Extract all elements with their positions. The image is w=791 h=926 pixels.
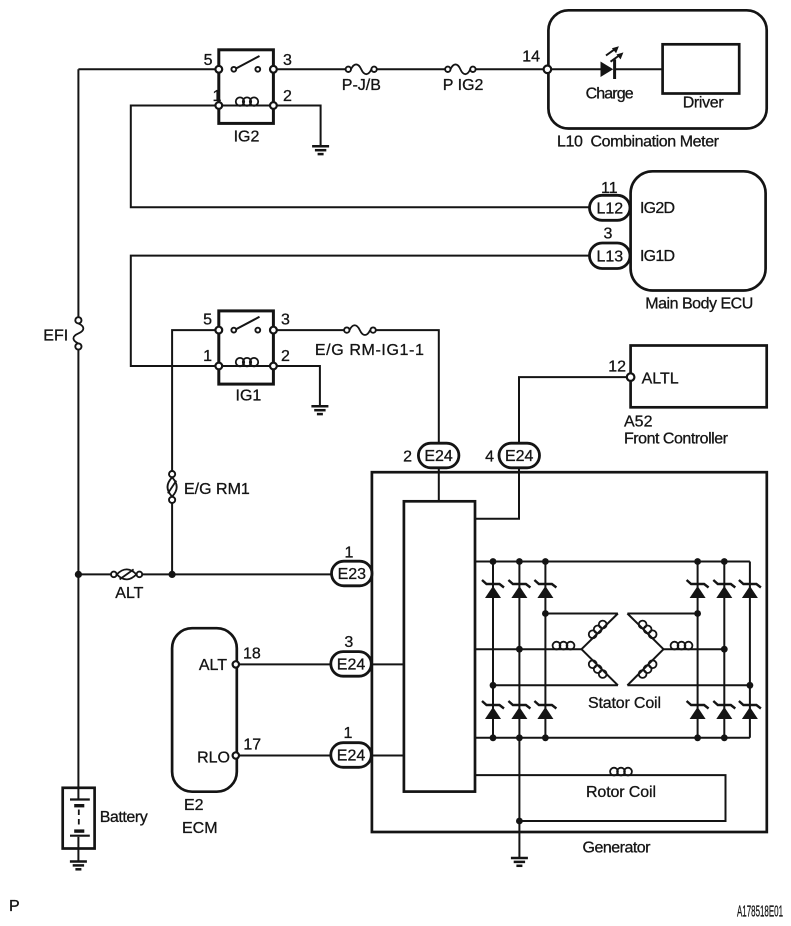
wire stator phase left bottom xyxy=(493,684,618,686)
box generator xyxy=(372,472,767,832)
wire IG1 pin 2 to ground xyxy=(273,366,320,406)
wire fuse E/G RM-IG1-1 to connector E24 pin 2 xyxy=(373,330,439,443)
svg-text:3: 3 xyxy=(281,312,290,329)
wire diode column 1 xyxy=(492,562,494,738)
wire stator right upper diagonal xyxy=(627,614,663,650)
svg-text:3: 3 xyxy=(344,634,353,651)
svg-text:5: 5 xyxy=(204,52,213,69)
svg-text:ECM: ECM xyxy=(182,820,218,837)
wire rotor coil loop xyxy=(475,775,726,821)
svg-text:P IG2: P IG2 xyxy=(443,77,484,94)
svg-text:Driver: Driver xyxy=(683,95,725,112)
wire stator phase left top xyxy=(545,613,618,615)
ECM ALT terminal circle xyxy=(233,661,239,667)
wire IG2 pin 1 to connector L12 xyxy=(131,106,590,208)
fusible link ALT xyxy=(111,569,142,579)
box driver xyxy=(663,44,740,93)
wire charge LED cathode to driver xyxy=(615,68,663,70)
junction dot top bus column 1 xyxy=(490,558,497,565)
junction dot phase tap column 3 xyxy=(542,610,549,617)
svg-text:Charge: Charge xyxy=(586,86,634,103)
relay IG1 pin 5 xyxy=(215,327,222,334)
junction dot top bus column 5 xyxy=(721,558,728,565)
junction dot phase tap column 2 xyxy=(516,646,523,653)
box battery xyxy=(63,788,95,849)
diode D7 lower column 1 xyxy=(482,701,504,719)
relay IG1 pin 1 xyxy=(215,363,222,370)
wire diode column 4 xyxy=(697,562,699,738)
wire rectifier top bus xyxy=(475,561,750,563)
wire fuse P-J/B to fuse P IG2 xyxy=(374,68,448,70)
battery top lead xyxy=(77,788,79,799)
wire IG2 pin 2 to ground xyxy=(273,106,320,147)
relay IG1 switch blade xyxy=(236,317,260,330)
svg-text:E/G RM-IG1-1: E/G RM-IG1-1 xyxy=(315,342,424,359)
svg-text:3: 3 xyxy=(604,226,613,243)
svg-text:1: 1 xyxy=(213,88,222,105)
wire diode column 3 xyxy=(544,562,546,738)
svg-text:Main Body ECU: Main Body ECU xyxy=(645,296,753,313)
battery cell long plate top xyxy=(70,798,90,800)
svg-text:P-J/B: P-J/B xyxy=(342,77,381,94)
battery cell long plate bottom xyxy=(70,835,90,837)
stator coil right lower diagonal loops xyxy=(639,660,657,678)
diode D11 lower column 5 xyxy=(713,701,735,719)
diode D9 lower column 3 xyxy=(534,701,556,719)
junction dot phase tap column 6 xyxy=(747,682,754,689)
wire stator phase left middle xyxy=(475,648,582,650)
svg-text:2: 2 xyxy=(281,348,290,365)
svg-text:ALT: ALT xyxy=(115,585,143,602)
relay IG2 box xyxy=(219,50,274,124)
relay IG2 switch blade xyxy=(236,56,260,69)
svg-text:IG1: IG1 xyxy=(236,387,262,404)
junction dot top bus column 4 xyxy=(694,558,701,565)
svg-text:L12: L12 xyxy=(596,200,623,217)
svg-text:E24: E24 xyxy=(337,748,366,765)
svg-text:E24: E24 xyxy=(505,448,534,465)
svg-text:E23: E23 xyxy=(338,566,367,583)
svg-text:EFI: EFI xyxy=(43,328,68,345)
wire pin 14 to charge LED anode xyxy=(548,68,601,70)
wire connector E24 pin 3 to regulator xyxy=(371,663,404,665)
svg-text:P: P xyxy=(9,898,20,915)
wire IG1 pin 5 to fuse E/G RM1 xyxy=(172,330,219,471)
ground of relay IG2 xyxy=(312,146,329,154)
wire fuse ALT to connector E23 xyxy=(139,573,332,575)
wire ECM RLO terminal to connector E24 pin 1 xyxy=(236,755,332,757)
svg-text:ALTL: ALTL xyxy=(642,371,679,388)
wire stator phase right top xyxy=(627,613,697,615)
wire connector L13 to IG1 pin 1 xyxy=(131,256,590,366)
svg-text:11: 11 xyxy=(601,180,618,197)
connector E24 pin2 oval xyxy=(418,443,459,468)
svg-text:Rotor Coil: Rotor Coil xyxy=(586,784,656,801)
box A52 front controller xyxy=(631,346,767,408)
battery cell short plate top xyxy=(74,804,84,807)
relay IG1 coil loops xyxy=(236,358,258,366)
svg-text:Stator Coil: Stator Coil xyxy=(588,695,661,712)
wire stator phase right middle xyxy=(664,648,725,650)
svg-text:18: 18 xyxy=(243,646,261,663)
diode D6 upper column 6 xyxy=(739,580,761,598)
diode D10 lower column 4 xyxy=(687,701,709,719)
battery bottom lead xyxy=(77,837,79,849)
junction dot phase tap column 1 xyxy=(490,682,497,689)
svg-text:Generator: Generator xyxy=(583,840,652,857)
junction dot bottom bus column 3 xyxy=(542,734,549,741)
wire battery line to fuse ALT xyxy=(78,573,113,575)
box main body ECU xyxy=(631,171,766,290)
wire battery feed vertical lower xyxy=(77,350,79,788)
relay IG2 pin 1 xyxy=(215,102,222,109)
svg-text:1: 1 xyxy=(345,545,354,562)
svg-text:17: 17 xyxy=(243,737,261,754)
wire rectifier bottom bus xyxy=(475,737,750,739)
battery cell short plate bottom xyxy=(74,829,84,832)
diode D3 upper column 3 xyxy=(534,580,556,598)
charge LED arrows xyxy=(606,46,623,62)
stator coil left lower diagonal loops xyxy=(589,660,607,678)
svg-text:Front Controller: Front Controller xyxy=(624,431,729,448)
fuse E/G RM-IG1-1 xyxy=(344,325,376,335)
wire diode column 2 xyxy=(518,562,520,738)
ground of generator xyxy=(511,858,528,866)
svg-text:E24: E24 xyxy=(337,657,366,674)
A52 pin 12 circle xyxy=(627,373,635,381)
wire fuse P IG2 to meter pin 14 xyxy=(473,68,548,70)
wire connector E24 pin 1 to regulator xyxy=(371,755,404,757)
svg-text:3: 3 xyxy=(283,52,292,69)
svg-text:A178518E01: A178518E01 xyxy=(737,904,783,921)
wire IG1 coil bar pin1-pin2 xyxy=(219,365,274,367)
wire IG1 pin 3 to fuse E/G RM-IG1-1 xyxy=(273,329,346,331)
meter pin 14 circle xyxy=(544,66,552,74)
junction dot EFI-ALT xyxy=(75,571,82,578)
svg-text:IG2: IG2 xyxy=(234,128,260,145)
fuse P IG2 xyxy=(445,64,476,74)
wire stator phase right bottom xyxy=(627,684,750,686)
svg-text:E24: E24 xyxy=(424,448,453,465)
svg-text:1: 1 xyxy=(203,348,212,365)
relay IG1 pin 2 xyxy=(270,363,277,370)
connector E24 pin3 oval xyxy=(331,652,372,677)
wire stator left upper diagonal xyxy=(582,614,618,650)
charge LED triangle and cathode bar xyxy=(601,60,615,80)
svg-text:ALT: ALT xyxy=(199,657,227,674)
wire diode column 6 xyxy=(749,562,751,738)
svg-text:2: 2 xyxy=(403,449,412,466)
stator coil left upper diagonal loops xyxy=(589,621,607,639)
fuse P-J/B xyxy=(346,64,377,74)
wire connector E24 pin 2 to regulator xyxy=(438,468,440,502)
stator coil right horizontal loops xyxy=(671,642,693,650)
relay IG2 pin 5 xyxy=(215,66,222,73)
battery dashed middle link xyxy=(78,810,80,829)
junction dot top bus column 2 xyxy=(516,558,523,565)
svg-text:1: 1 xyxy=(344,725,353,742)
svg-text:RLO: RLO xyxy=(197,750,230,767)
relay IG2 switch contact circles xyxy=(231,67,260,72)
wire connector E24 pin 4 to regulator xyxy=(475,468,519,519)
junction dot rotor coil ground xyxy=(516,818,523,825)
svg-text:IG2D: IG2D xyxy=(640,200,675,217)
junction dot top bus column 3 xyxy=(542,558,549,565)
wire stator right lower diagonal xyxy=(627,649,663,685)
connector E23 oval xyxy=(332,561,373,586)
stator coil left horizontal loops xyxy=(553,642,575,650)
wire battery to ground xyxy=(77,849,79,862)
svg-text:2: 2 xyxy=(283,88,292,105)
connector L13 oval xyxy=(590,243,631,269)
fusible link E/G RM1 xyxy=(168,471,177,503)
svg-text:5: 5 xyxy=(203,312,212,329)
ground of battery xyxy=(70,862,87,870)
connector L12 oval xyxy=(590,195,631,220)
relay IG1 switch contact circles xyxy=(231,328,260,333)
wire generator ground line xyxy=(518,738,520,858)
wire IG2 pin 3 to fuse P-J/B xyxy=(273,68,348,70)
svg-text:12: 12 xyxy=(608,359,626,376)
svg-text:14: 14 xyxy=(522,49,540,66)
box L10 combination meter xyxy=(548,10,766,128)
wire IG2 coil bar pin1-pin2 xyxy=(219,105,274,107)
diode D1 upper column 1 xyxy=(482,580,504,598)
relay IG1 box xyxy=(219,311,274,384)
svg-text:E2: E2 xyxy=(184,797,204,814)
svg-text:A52: A52 xyxy=(624,414,653,431)
connector E24 pin1 oval xyxy=(331,743,372,768)
junction dot bottom bus column 2 xyxy=(516,734,523,741)
relay IG2 pin 3 xyxy=(270,66,277,73)
svg-text:IG1D: IG1D xyxy=(640,248,675,265)
relay IG1 pin 3 xyxy=(270,327,277,334)
svg-text:L10 Combination Meter: L10 Combination Meter xyxy=(557,134,720,151)
connector E24 pin4 oval xyxy=(499,443,540,468)
diode D5 upper column 5 xyxy=(713,580,735,598)
junction dot bottom bus column 1 xyxy=(490,734,497,741)
svg-text:Battery: Battery xyxy=(100,809,148,826)
wire fuse E/G RM1 to ALT junction xyxy=(171,503,173,574)
wire A52 pin 12 to connector E24 pin 4 xyxy=(519,377,631,443)
junction dot bottom bus column 5 xyxy=(721,734,728,741)
box voltage regulator xyxy=(404,501,475,791)
ground of relay IG1 xyxy=(311,406,328,414)
diode D12 lower column 6 xyxy=(739,701,761,719)
junction dot phase tap column 5 xyxy=(721,646,728,653)
diode D2 upper column 2 xyxy=(508,580,530,598)
relay IG2 pin 2 xyxy=(270,102,277,109)
junction dot phase tap column 4 xyxy=(694,610,701,617)
ECM RLO terminal circle xyxy=(233,752,239,758)
junction dot bottom bus column 4 xyxy=(694,734,701,741)
box E2 ECM xyxy=(172,628,237,792)
svg-text:4: 4 xyxy=(485,449,494,466)
diode D4 upper column 4 xyxy=(687,580,709,598)
diode D8 lower column 2 xyxy=(508,701,530,719)
wire diode column 5 xyxy=(723,562,725,738)
relay IG2 coil loops xyxy=(236,97,258,105)
wire top feed horizontal to IG2 pin 5 xyxy=(78,68,218,70)
wire battery feed vertical upper (EFI branch) xyxy=(77,69,79,317)
svg-text:E/G RM1: E/G RM1 xyxy=(184,481,250,498)
stator coil right upper diagonal loops xyxy=(639,621,657,639)
wire ECM ALT terminal to connector E24 pin 3 xyxy=(236,663,332,665)
fuse EFI xyxy=(73,317,83,349)
wire stator left lower diagonal xyxy=(582,649,618,685)
svg-text:L13: L13 xyxy=(596,248,623,265)
junction dot E/G RM1-ALT xyxy=(169,571,176,578)
rotor coil loops xyxy=(610,768,632,776)
